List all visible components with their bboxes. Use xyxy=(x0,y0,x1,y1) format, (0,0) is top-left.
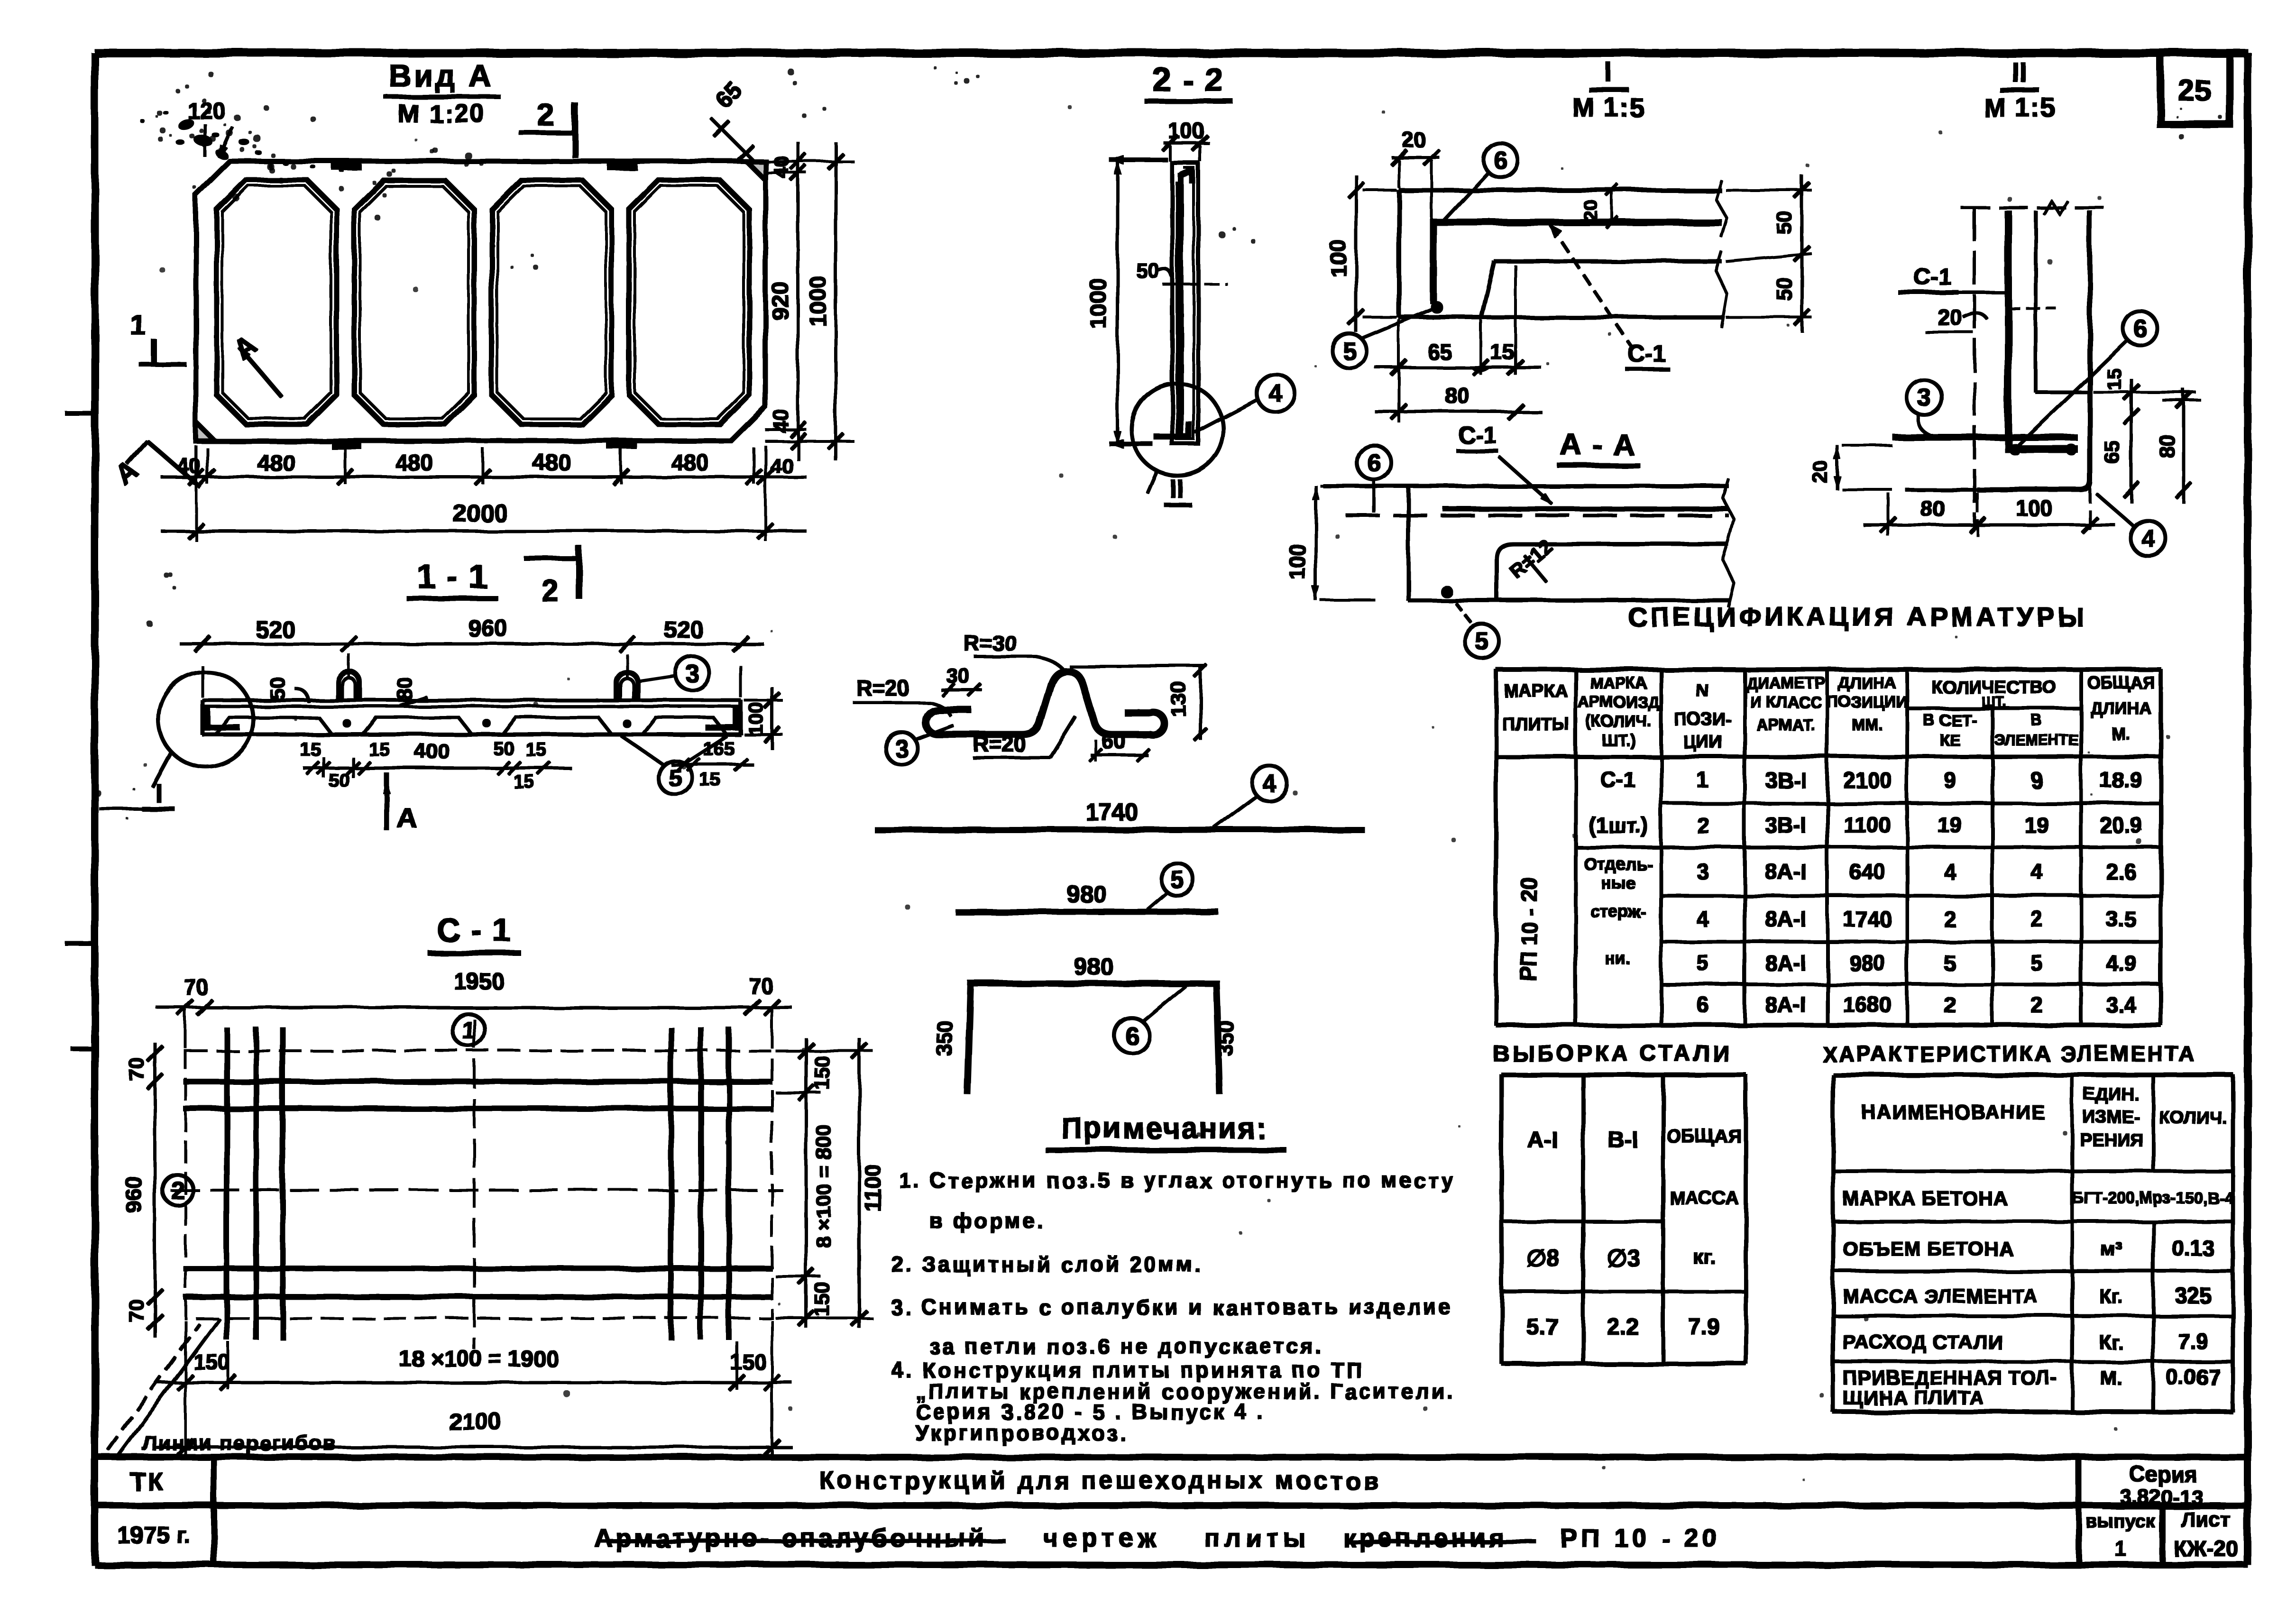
svg-text:2: 2 xyxy=(538,98,555,132)
svg-text:Линии перегибов: Линии перегибов xyxy=(142,1431,337,1455)
svg-text:∅3: ∅3 xyxy=(1606,1245,1640,1271)
svg-text:4: 4 xyxy=(2141,525,2155,552)
svg-text:АРМОИЗД: АРМОИЗД xyxy=(1578,693,1659,711)
svg-text:М.: М. xyxy=(2100,1367,2122,1389)
svg-text:АРМАТ.: АРМАТ. xyxy=(1756,716,1815,734)
svg-text:19: 19 xyxy=(1938,813,1962,837)
svg-text:65: 65 xyxy=(2101,441,2124,465)
svg-text:80: 80 xyxy=(1920,496,1944,521)
svg-text:20: 20 xyxy=(1580,200,1601,221)
svg-text:I: I xyxy=(1605,57,1612,88)
svg-text:1. Стержни поз.5 в углах отогн: 1. Стержни поз.5 в углах отогнуть по мес… xyxy=(899,1168,1455,1193)
svg-text:5: 5 xyxy=(1697,951,1709,975)
svg-text:С-1: С-1 xyxy=(1459,422,1497,449)
svg-text:В: В xyxy=(2031,712,2042,729)
svg-text:100: 100 xyxy=(2016,496,2053,521)
svg-text:3.5: 3.5 xyxy=(2106,907,2136,931)
svg-text:15: 15 xyxy=(514,771,535,792)
svg-text:2.6: 2.6 xyxy=(2106,859,2136,884)
svg-text:Серия: Серия xyxy=(2130,1462,2197,1486)
svg-text:МАРКА: МАРКА xyxy=(1504,681,1568,701)
svg-text:за петли поз.6 не допускается.: за петли поз.6 не допускается. xyxy=(929,1334,1324,1358)
svg-text:65: 65 xyxy=(1427,339,1451,364)
svg-text:ОБЩАЯ: ОБЩАЯ xyxy=(2087,673,2155,692)
svg-text:150: 150 xyxy=(810,1055,834,1090)
svg-text:30: 30 xyxy=(946,664,970,688)
svg-text:150: 150 xyxy=(810,1282,834,1316)
svg-text:МАССА ЭЛЕМЕНТА: МАССА ЭЛЕМЕНТА xyxy=(1843,1285,2038,1307)
svg-text:5: 5 xyxy=(2030,951,2043,975)
svg-text:ММ.: ММ. xyxy=(1852,716,1883,734)
svg-text:3.4: 3.4 xyxy=(2106,992,2136,1017)
svg-text:(1шт.): (1шт.) xyxy=(1589,813,1648,837)
svg-text:400: 400 xyxy=(415,740,450,763)
svg-text:640: 640 xyxy=(1849,859,1886,884)
svg-text:II: II xyxy=(2011,57,2027,88)
svg-text:3: 3 xyxy=(1697,859,1709,884)
svg-text:2.2: 2.2 xyxy=(1607,1315,1639,1340)
svg-text:4: 4 xyxy=(1944,859,1956,884)
svg-text:ДИАМЕТР: ДИАМЕТР xyxy=(1746,674,1826,692)
svg-text:ИЗМЕ-: ИЗМЕ- xyxy=(2083,1107,2140,1127)
svg-text:5: 5 xyxy=(1475,628,1489,655)
svg-text:520: 520 xyxy=(256,616,295,643)
svg-text:ОБЪЕМ БЕТОНА: ОБЪЕМ БЕТОНА xyxy=(1843,1238,2014,1260)
svg-text:N: N xyxy=(1696,681,1709,701)
svg-text:20.9: 20.9 xyxy=(2100,813,2142,837)
svg-text:ТК: ТК xyxy=(129,1467,165,1496)
svg-text:4: 4 xyxy=(1269,380,1283,407)
svg-text:1: 1 xyxy=(1697,768,1709,792)
svg-text:2: 2 xyxy=(542,574,559,608)
svg-text:1100: 1100 xyxy=(860,1164,885,1211)
svg-text:Кг.: Кг. xyxy=(2099,1331,2123,1353)
svg-text:15: 15 xyxy=(369,739,390,760)
svg-text:9: 9 xyxy=(2030,768,2043,792)
svg-text:8 ×100 = 800: 8 ×100 = 800 xyxy=(812,1125,836,1248)
svg-text:ЭЛЕМЕНТЕ: ЭЛЕМЕНТЕ xyxy=(1994,732,2078,749)
svg-text:3.820-13: 3.820-13 xyxy=(2120,1486,2203,1509)
svg-text:480: 480 xyxy=(671,450,709,476)
svg-text:R=30: R=30 xyxy=(964,631,1016,655)
svg-text:165: 165 xyxy=(703,738,735,759)
svg-text:СПЕЦИФИКАЦИЯ АРМАТУРЫ: СПЕЦИФИКАЦИЯ АРМАТУРЫ xyxy=(1628,602,2087,632)
svg-text:80: 80 xyxy=(2155,434,2178,458)
svg-text:100: 100 xyxy=(744,702,767,735)
svg-text:350: 350 xyxy=(1213,1020,1238,1057)
svg-text:150: 150 xyxy=(730,1349,767,1374)
svg-text:РП 10 - 20: РП 10 - 20 xyxy=(1560,1524,1720,1552)
svg-text:960: 960 xyxy=(121,1177,146,1213)
svg-text:40: 40 xyxy=(770,454,793,477)
svg-text:1: 1 xyxy=(2114,1536,2127,1561)
svg-text:1: 1 xyxy=(129,309,145,340)
svg-text:С-1: С-1 xyxy=(1627,340,1666,367)
svg-text:ХАРАКТЕРИСТИКА ЭЛЕМЕНТА: ХАРАКТЕРИСТИКА ЭЛЕМЕНТА xyxy=(1822,1041,2196,1066)
svg-text:350: 350 xyxy=(932,1020,957,1057)
svg-text:М 1:5: М 1:5 xyxy=(1984,92,2056,122)
svg-text:40: 40 xyxy=(177,454,201,477)
svg-text:плиты: плиты xyxy=(1204,1524,1310,1552)
svg-text:КЕ: КЕ xyxy=(1939,731,1960,749)
svg-text:Арматурно- опалубочный: Арматурно- опалубочный xyxy=(594,1524,987,1552)
svg-text:8А-I: 8А-I xyxy=(1765,951,1807,975)
svg-text:выпуск: выпуск xyxy=(2086,1511,2156,1532)
svg-text:стерж-: стерж- xyxy=(1591,902,1646,921)
svg-text:МАРКА: МАРКА xyxy=(1590,674,1647,692)
svg-text:1000: 1000 xyxy=(806,276,831,327)
svg-text:РП 10 - 20: РП 10 - 20 xyxy=(1516,877,1541,982)
svg-text:15: 15 xyxy=(700,770,721,790)
svg-text:15: 15 xyxy=(300,739,321,760)
svg-text:5: 5 xyxy=(1944,951,1956,975)
svg-text:НАИМЕНОВАНИЕ: НАИМЕНОВАНИЕ xyxy=(1862,1101,2046,1123)
svg-text:2000: 2000 xyxy=(453,500,508,527)
svg-text:100: 100 xyxy=(1285,544,1310,580)
svg-text:0.13: 0.13 xyxy=(2172,1236,2214,1260)
svg-text:6: 6 xyxy=(1697,992,1709,1017)
svg-text:80: 80 xyxy=(393,677,416,700)
svg-text:Примечания:: Примечания: xyxy=(1061,1112,1267,1145)
svg-text:920: 920 xyxy=(768,282,793,320)
svg-text:150: 150 xyxy=(193,1349,230,1374)
svg-text:М.: М. xyxy=(2112,724,2131,743)
svg-text:РЕНИЯ: РЕНИЯ xyxy=(2080,1130,2143,1150)
svg-text:1100: 1100 xyxy=(1844,813,1891,837)
svg-text:50: 50 xyxy=(1136,259,1159,282)
svg-text:ЩИНА ПЛИТА: ЩИНА ПЛИТА xyxy=(1843,1386,1984,1409)
svg-text:ДЛИНА: ДЛИНА xyxy=(1838,674,1896,692)
svg-text:РАСХОД СТАЛИ: РАСХОД СТАЛИ xyxy=(1843,1331,2003,1353)
svg-text:2100: 2100 xyxy=(449,1408,501,1435)
svg-text:ПРИВЕДЕННАЯ ТОЛ-: ПРИВЕДЕННАЯ ТОЛ- xyxy=(1843,1367,2057,1389)
svg-text:1 - 1: 1 - 1 xyxy=(417,558,488,595)
svg-text:1975 г.: 1975 г. xyxy=(118,1522,191,1549)
svg-text:5.7: 5.7 xyxy=(1527,1315,1559,1340)
svg-text:В-I: В-I xyxy=(1608,1128,1638,1153)
svg-text:ЦИИ: ЦИИ xyxy=(1683,733,1722,752)
svg-text:С - 1: С - 1 xyxy=(437,912,511,948)
svg-text:1000: 1000 xyxy=(1086,278,1111,329)
svg-text:Вид А: Вид А xyxy=(388,58,493,93)
svg-text:80: 80 xyxy=(1445,383,1469,408)
svg-text:2: 2 xyxy=(2030,907,2043,931)
svg-text:980: 980 xyxy=(1849,951,1886,975)
svg-text:100: 100 xyxy=(1326,240,1350,277)
svg-text:480: 480 xyxy=(395,450,433,476)
svg-text:60: 60 xyxy=(1101,728,1125,753)
svg-text:С-1: С-1 xyxy=(1601,768,1636,792)
svg-text:1680: 1680 xyxy=(1843,992,1892,1017)
svg-text:КОЛИЧ.: КОЛИЧ. xyxy=(2159,1108,2227,1128)
svg-text:А - А: А - А xyxy=(1560,428,1635,462)
svg-text:ДЛИНА: ДЛИНА xyxy=(2091,698,2152,718)
svg-text:2: 2 xyxy=(2030,992,2043,1017)
svg-text:1740: 1740 xyxy=(1843,907,1892,931)
svg-text:6: 6 xyxy=(1494,147,1508,174)
svg-text:25: 25 xyxy=(2178,74,2211,107)
svg-text:ОБЩАЯ: ОБЩАЯ xyxy=(1667,1126,1742,1147)
svg-text:4.9: 4.9 xyxy=(2106,951,2136,975)
svg-text:130: 130 xyxy=(1167,682,1190,716)
svg-text:Кг.: Кг. xyxy=(2099,1285,2123,1307)
svg-text:чертеж: чертеж xyxy=(1043,1524,1161,1552)
svg-text:I: I xyxy=(155,778,163,808)
svg-text:И КЛАСС: И КЛАСС xyxy=(1750,693,1821,711)
svg-text:в форме.: в форме. xyxy=(929,1209,1045,1233)
svg-text:7.9: 7.9 xyxy=(1689,1315,1720,1340)
svg-text:Укргипроводхоз.: Укргипроводхоз. xyxy=(915,1421,1128,1445)
svg-text:2: 2 xyxy=(1697,813,1709,837)
svg-text:ПОЗИ-: ПОЗИ- xyxy=(1674,710,1732,730)
svg-text:А-I: А-I xyxy=(1527,1128,1558,1153)
svg-text:120: 120 xyxy=(187,99,225,124)
svg-text:15: 15 xyxy=(1490,339,1514,364)
svg-text:325: 325 xyxy=(2175,1283,2212,1308)
svg-text:1950: 1950 xyxy=(454,969,505,994)
svg-text:(КОЛИЧ.: (КОЛИЧ. xyxy=(1585,712,1651,730)
svg-text:6: 6 xyxy=(1367,449,1381,477)
svg-text:50: 50 xyxy=(266,677,289,700)
svg-text:20: 20 xyxy=(1809,460,1832,484)
svg-text:2: 2 xyxy=(171,1177,185,1204)
svg-text:19: 19 xyxy=(2024,813,2048,837)
svg-text:70: 70 xyxy=(125,1300,148,1323)
svg-text:2 - 2: 2 - 2 xyxy=(1153,61,1224,98)
svg-text:2: 2 xyxy=(1944,992,1956,1017)
svg-text:18.9: 18.9 xyxy=(2100,768,2142,792)
svg-text:40: 40 xyxy=(770,156,793,179)
svg-text:8А-I: 8А-I xyxy=(1765,859,1807,884)
svg-text:ПОЗИЦИИ: ПОЗИЦИИ xyxy=(1827,693,1908,711)
svg-text:20: 20 xyxy=(1938,305,1962,330)
svg-text:4. Конструкция плиты принята: 4. Конструкция плиты принята по ТП xyxy=(891,1358,1364,1382)
svg-text:2: 2 xyxy=(1944,907,1956,931)
svg-text:4: 4 xyxy=(2030,859,2043,884)
svg-text:∅8: ∅8 xyxy=(1525,1245,1559,1271)
svg-text:15: 15 xyxy=(2103,368,2125,391)
svg-text:1: 1 xyxy=(462,1017,476,1044)
svg-text:6: 6 xyxy=(2133,315,2147,342)
svg-text:Лист: Лист xyxy=(2181,1508,2231,1532)
svg-text:3В-I: 3В-I xyxy=(1765,768,1807,792)
svg-text:М 1:5: М 1:5 xyxy=(1572,92,1645,122)
svg-text:2. Защитный слой 20мм.: 2. Защитный слой 20мм. xyxy=(891,1252,1203,1276)
svg-text:3В-I: 3В-I xyxy=(1765,813,1807,837)
svg-text:50: 50 xyxy=(329,771,350,791)
svg-text:R=20: R=20 xyxy=(973,732,1026,756)
svg-text:9: 9 xyxy=(1944,768,1956,792)
svg-text:50: 50 xyxy=(1773,278,1796,301)
svg-text:980: 980 xyxy=(1067,881,1106,908)
svg-text:480: 480 xyxy=(533,450,571,476)
svg-text:50: 50 xyxy=(1773,211,1796,235)
svg-text:КЖ-20: КЖ-20 xyxy=(2174,1536,2238,1561)
svg-text:50: 50 xyxy=(493,738,514,759)
svg-text:ПЛИТЫ: ПЛИТЫ xyxy=(1502,715,1570,734)
svg-text:М 1:20: М 1:20 xyxy=(398,100,486,128)
svg-text:1740: 1740 xyxy=(1085,799,1138,826)
svg-text:С-1: С-1 xyxy=(1913,263,1952,290)
svg-text:ни.: ни. xyxy=(1606,949,1631,969)
svg-text:8А-I: 8А-I xyxy=(1765,907,1807,931)
svg-text:II: II xyxy=(1169,474,1183,503)
svg-text:Конструкций для пешеходных: Конструкций для пешеходных мостов xyxy=(819,1467,1381,1495)
svg-text:ные: ные xyxy=(1601,873,1636,893)
svg-text:980: 980 xyxy=(1074,953,1113,980)
svg-text:МАРКА БЕТОНА: МАРКА БЕТОНА xyxy=(1843,1187,2008,1210)
svg-text:3: 3 xyxy=(895,735,909,762)
svg-text:4: 4 xyxy=(1697,907,1709,931)
svg-text:кг.: кг. xyxy=(1693,1245,1716,1268)
svg-text:70: 70 xyxy=(184,975,208,1000)
svg-text:520: 520 xyxy=(664,616,703,643)
svg-text:6: 6 xyxy=(1125,1022,1139,1050)
svg-text:70: 70 xyxy=(125,1058,148,1081)
svg-text:4: 4 xyxy=(1263,770,1277,798)
svg-text:ЕДИН.: ЕДИН. xyxy=(2083,1084,2139,1104)
svg-text:960: 960 xyxy=(468,615,507,642)
svg-text:70: 70 xyxy=(749,974,773,999)
svg-text:0.067: 0.067 xyxy=(2166,1365,2220,1389)
svg-text:В СЕТ-: В СЕТ- xyxy=(1923,711,1976,729)
svg-text:3. Снимать с опалубки и кант: 3. Снимать с опалубки и кантовать издели… xyxy=(891,1295,1453,1319)
svg-text:5: 5 xyxy=(1171,866,1185,894)
svg-text:15: 15 xyxy=(525,739,547,760)
svg-text:7.9: 7.9 xyxy=(2178,1329,2208,1354)
svg-text:2100: 2100 xyxy=(1843,768,1892,792)
svg-text:м³: м³ xyxy=(2100,1238,2122,1260)
svg-text:крепления: крепления xyxy=(1343,1524,1507,1552)
svg-text:40: 40 xyxy=(770,410,793,433)
svg-text:МАССА: МАССА xyxy=(1670,1188,1739,1209)
svg-text:3: 3 xyxy=(1918,385,1932,412)
svg-text:А: А xyxy=(396,802,417,834)
svg-text:R=20: R=20 xyxy=(856,676,909,700)
svg-text:480: 480 xyxy=(257,450,295,476)
svg-text:ВЫБОРКА СТАЛИ: ВЫБОРКА СТАЛИ xyxy=(1493,1041,1732,1066)
svg-text:5: 5 xyxy=(1343,338,1357,365)
svg-text:20: 20 xyxy=(1403,128,1426,152)
svg-text:8А-I: 8А-I xyxy=(1765,992,1807,1017)
svg-text:ШТ.): ШТ.) xyxy=(1601,731,1635,749)
svg-text:БГТ-200,Мрз-150,В-4: БГТ-200,Мрз-150,В-4 xyxy=(2072,1189,2233,1207)
svg-text:ШТ.: ШТ. xyxy=(1981,694,2006,710)
svg-text:3: 3 xyxy=(686,660,699,688)
svg-text:Отдель-: Отдель- xyxy=(1584,854,1653,874)
svg-text:18 ×100 = 1900: 18 ×100 = 1900 xyxy=(399,1347,559,1372)
